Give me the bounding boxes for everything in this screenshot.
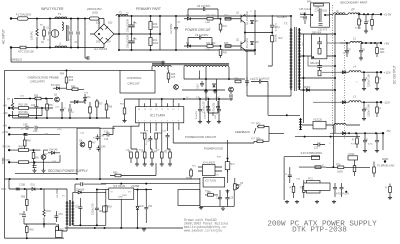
ground +5V filter — [359, 57, 363, 61]
aux box left of IC2 — [178, 190, 200, 206]
resistor R67 — [89, 142, 92, 148]
svg-text:C19: C19 — [229, 198, 234, 200]
svg-text:FR302: FR302 — [303, 86, 311, 89]
capacitor C3 — [76, 32, 80, 34]
wire 5VSB gnd bus — [65, 227, 183, 229]
capacitor C8 1uF/50V — [201, 7, 207, 11]
svg-text:222: 222 — [68, 40, 72, 42]
svg-text:C1: C1 — [46, 28, 50, 30]
secondary return bus — [303, 34, 305, 123]
resistor R80 — [26, 200, 29, 206]
svg-text:-5V: -5V — [386, 129, 391, 133]
resistor R44b — [167, 73, 170, 79]
ground -5V b — [375, 149, 379, 153]
capacitor C7 bulk — [174, 25, 178, 31]
wire second psu bottom — [5, 178, 200, 180]
choke L3 -12V — [349, 101, 361, 103]
svg-text:R1: R1 — [41, 42, 45, 44]
resistor R71 — [225, 162, 230, 170]
resistor R47 1K2 — [271, 36, 274, 42]
capacitor C49 — [97, 146, 101, 152]
ground shield end — [161, 61, 165, 65]
capacitor C18 — [166, 133, 170, 139]
svg-text:-12V: -12V — [3, 112, 8, 115]
rail right of power circuit — [254, 10, 256, 55]
dotted separation line 1 — [332, 5, 334, 130]
capacitor C45 — [26, 126, 28, 130]
svg-text:CIRCUIT: CIRCUIT — [128, 82, 140, 86]
resistor R44 — [207, 45, 213, 48]
diode D11 — [84, 97, 87, 100]
svg-text:+3.3V: +3.3V — [2, 131, 9, 134]
ground +12V filter a — [362, 87, 366, 91]
svg-text:9: 9 — [178, 109, 179, 111]
capacitor C1 — [48, 32, 52, 34]
rail after bridge — [118, 16, 120, 50]
wire above IC — [139, 99, 233, 103]
wire ovp row — [14, 98, 53, 100]
resistor R58 — [72, 88, 78, 91]
varistor Z1 — [36, 29, 38, 36]
svg-text:C22: C22 — [55, 107, 60, 109]
svg-text:C: C — [329, 143, 331, 145]
svg-text:5: 5 — [161, 121, 162, 123]
transformer T6 primary winding — [66, 201, 68, 225]
rectifier module D35 box — [313, 121, 326, 129]
zener Q9 zig — [43, 210, 45, 217]
svg-text:L3: L3 — [353, 95, 356, 99]
svg-text:C2: C2 — [67, 28, 71, 30]
capacitor C54 — [144, 205, 148, 211]
snubber cap CS2 — [317, 66, 322, 68]
ground +3.3V filter — [364, 30, 368, 34]
svg-text:R60: R60 — [113, 172, 118, 175]
bottom DC rail — [119, 49, 255, 51]
resistor R87 — [389, 187, 392, 193]
svg-text:SECONDARY PART: SECONDARY PART — [340, 1, 368, 5]
choke L4 +12V — [349, 71, 361, 73]
resistor R52 — [155, 133, 158, 139]
svg-text:R57: R57 — [99, 104, 104, 106]
choke T1 top winding — [55, 17, 67, 19]
svg-text:100R: 100R — [205, 22, 211, 24]
capacitor C38 2200uF/10V — [95, 206, 99, 212]
ground R87 — [388, 196, 392, 200]
wire bottom AC line — [11, 47, 104, 49]
capacitor C19 — [225, 195, 229, 201]
snubber res RS2 — [318, 70, 321, 76]
svg-text:330uF/200V: 330uF/200V — [127, 35, 130, 48]
svg-text:D83-004: D83-004 — [312, 32, 322, 35]
capacitor C103 — [359, 48, 363, 54]
svg-text:R81: R81 — [30, 230, 35, 232]
wire +12V row — [340, 71, 381, 73]
capacitor C32 — [217, 107, 221, 113]
svg-text:8: 8 — [178, 121, 179, 123]
svg-text:+3.3V: +3.3V — [384, 13, 392, 17]
svg-text:47u/25V: 47u/25V — [196, 110, 198, 119]
wire 3.3V return — [295, 136, 360, 138]
capacitor C31 — [207, 107, 211, 113]
svg-text:IC5 TL431: IC5 TL431 — [205, 180, 217, 183]
diode D6 — [187, 45, 190, 48]
svg-text:+5V: +5V — [3, 124, 8, 127]
svg-text:POWERGOOD: POWERGOOD — [204, 147, 223, 151]
IC3 gnd wire — [120, 199, 122, 228]
dotted separation line 2 — [344, 40, 346, 140]
resistor R81 — [26, 227, 29, 233]
resistor R90 — [19, 114, 29, 117]
svg-text:R49: R49 — [307, 1, 312, 4]
T2 winding end wires — [152, 67, 229, 90]
capacitor C22 — [68, 109, 72, 111]
capacitor C104 2200uF/16V — [362, 77, 366, 83]
svg-text:INPUT FILTER: INPUT FILTER — [41, 7, 64, 11]
svg-text:+12V: +12V — [384, 71, 391, 75]
resistor row below IC — [130, 152, 133, 158]
svg-text:C40: C40 — [363, 109, 368, 111]
svg-text:R58: R58 — [71, 85, 76, 88]
svg-text:R: R — [93, 138, 95, 140]
svg-text:C37: C37 — [347, 50, 352, 52]
svg-text:12: 12 — [161, 109, 163, 111]
svg-text:SECOND POWER SUPPLY: SECOND POWER SUPPLY — [48, 169, 89, 173]
resistor R89 — [19, 161, 29, 164]
svg-text:GND: GND — [382, 157, 388, 161]
svg-text:2200u/10V: 2200u/10V — [203, 101, 206, 113]
resistor R74 — [257, 140, 263, 143]
capacitor C5 330uF/200V — [128, 25, 134, 27]
terminal +12V — [380, 71, 382, 73]
diode D16 — [74, 101, 77, 104]
resistor R48 — [235, 80, 241, 83]
second psu connector box — [284, 157, 326, 200]
svg-text:L4: L4 — [353, 65, 356, 69]
transistor Q8 — [80, 142, 85, 147]
svg-text:CIRCUITRY: CIRCUITRY — [30, 79, 45, 83]
resistor R0 bottom line — [20, 46, 26, 49]
svg-text:T4: T4 — [352, 9, 355, 11]
choke L5 +3.3V — [348, 13, 360, 15]
svg-text:D21: D21 — [96, 22, 101, 25]
svg-text:16: 16 — [138, 109, 140, 111]
svg-text:D24: D24 — [107, 42, 112, 44]
IC1 TL494 — [136, 107, 184, 123]
-5V sub box — [382, 133, 384, 150]
svg-text:IC6: IC6 — [215, 175, 219, 177]
transformer T3 core — [295, 27, 297, 91]
transistor Q1 2SC4242 — [241, 15, 245, 25]
wire -12V row — [340, 101, 381, 103]
voltage selector switch — [90, 17, 100, 20]
svg-text:C56: C56 — [296, 179, 301, 181]
diode D38 — [342, 132, 345, 135]
capacitor C9 1uF/50V — [197, 36, 203, 40]
svg-text:1K: 1K — [21, 129, 24, 131]
svg-text:D33: D33 — [47, 211, 52, 213]
wire to IC3 — [97, 189, 109, 191]
svg-text:D13: D13 — [84, 93, 89, 95]
svg-text:NTC SCK105: NTC SCK105 — [18, 50, 34, 54]
resistor R56 — [46, 104, 49, 110]
svg-text:R59: R59 — [88, 107, 93, 109]
svg-text:C5: C5 — [134, 23, 138, 25]
svg-text:R: R — [380, 79, 382, 81]
resistor R64 — [23, 140, 26, 146]
svg-text:C41: C41 — [364, 140, 369, 142]
svg-text:7805: 7805 — [122, 195, 128, 197]
lamp/cap circle CX — [51, 30, 59, 38]
T3 secondary taps — [300, 34, 335, 90]
svg-text:R: R — [290, 188, 292, 190]
svg-text:SHIELD: SHIELD — [11, 58, 23, 62]
snubber res RS1 — [318, 49, 321, 55]
terminal AC L — [10, 17, 12, 19]
svg-text:104: 104 — [47, 40, 51, 42]
capacitor C53 — [78, 205, 82, 211]
svg-text:POWERGOOD CIRCUIT: POWERGOOD CIRCUIT — [185, 135, 217, 139]
svg-text:C51: C51 — [59, 214, 64, 216]
capacitor C16b — [216, 104, 220, 110]
wire +5V row — [340, 42, 381, 44]
resistor R83 — [105, 206, 108, 212]
wire bottom-left rails — [5, 179, 65, 238]
wire to feedback — [268, 82, 300, 116]
big box left edge — [4, 70, 6, 238]
ground -5V a — [363, 149, 367, 153]
wire aux row — [184, 78, 245, 80]
aux rail wires down — [199, 71, 216, 102]
resistor R103 3R3 — [376, 48, 379, 54]
svg-text:POW: POW — [349, 153, 355, 156]
svg-text:14: 14 — [150, 109, 152, 111]
svg-text:~: ~ — [86, 29, 88, 31]
choke L2 +5V — [350, 42, 362, 44]
ground C31 — [206, 120, 210, 124]
resistor R46 — [219, 50, 222, 56]
svg-text:C10B: C10B — [19, 184, 25, 187]
svg-text:-12V: -12V — [384, 101, 390, 105]
resistor Rb6 — [169, 152, 172, 158]
svg-text:R83: R83 — [108, 207, 113, 209]
resistor R102 — [371, 20, 374, 26]
terminal -12V sense — [8, 114, 10, 116]
svg-text:6: 6 — [167, 121, 168, 123]
svg-text:D31: D31 — [31, 184, 36, 187]
capacitor C10B — [16, 188, 20, 190]
svg-text:POWER CIRCUIT: POWER CIRCUIT — [185, 28, 211, 32]
svg-text:2200u/10V: 2200u/10V — [92, 203, 95, 215]
resistor R43 — [219, 24, 222, 30]
resistor Rb5 — [161, 152, 164, 158]
second psu top box lines — [77, 128, 115, 175]
resistor R82 — [56, 227, 59, 233]
svg-text:PS ON: PS ON — [3, 146, 11, 149]
svg-text:R 3R3: R 3R3 — [355, 28, 362, 30]
resistor R66 — [32, 153, 35, 159]
svg-text:470u: 470u — [368, 144, 374, 146]
svg-text:1: 1 — [138, 121, 139, 123]
svg-text:T6: T6 — [62, 196, 65, 198]
svg-text:R54: R54 — [60, 74, 65, 76]
capacitor C21 — [60, 107, 64, 113]
resistor R42 — [225, 17, 231, 20]
svg-text:R55: R55 — [34, 96, 39, 98]
svg-text:R45: R45 — [224, 42, 229, 45]
svg-text:R: R — [300, 188, 302, 190]
transistor Q7 — [41, 155, 46, 160]
resistor R60 — [115, 174, 121, 177]
svg-text:1K5: 1K5 — [171, 76, 176, 79]
svg-text:AC INPUT: AC INPUT — [2, 29, 6, 44]
extra labels zone2 — [20, 9, 374, 198]
svg-text:D32: D32 — [140, 206, 145, 208]
wire feedback out — [269, 133, 284, 135]
ground aux a — [204, 90, 208, 94]
capacitor C11 aux — [200, 81, 204, 87]
resistor R41 — [207, 17, 213, 20]
IC2 box — [203, 178, 225, 188]
capacitor C105 — [362, 107, 366, 113]
capacitor C47 — [24, 134, 28, 136]
svg-text:R48: R48 — [234, 78, 239, 81]
terminal +5V — [380, 42, 382, 44]
svg-text:R43: R43 — [223, 26, 228, 28]
svg-text:R5: R5 — [164, 152, 168, 154]
bottom right rect block — [304, 183, 330, 191]
wire magamp fb vertical — [332, 125, 334, 167]
svg-text:F1 T5A/250V: F1 T5A/250V — [16, 13, 32, 17]
capacitor C101 — [364, 20, 368, 26]
wire 5vsb rail — [15, 173, 77, 175]
bridge rectifier D21-D24 — [94, 24, 114, 44]
resistor R68 — [89, 107, 92, 113]
svg-text:LG-0508: LG-0508 — [56, 188, 59, 198]
capacitor C106 — [363, 138, 367, 144]
svg-text:TO BRAID-GND: TO BRAID-GND — [377, 165, 395, 168]
svg-text:D15: D15 — [58, 129, 63, 131]
svg-text:3300u: 3300u — [343, 53, 350, 55]
svg-text:11: 11 — [167, 109, 169, 111]
capacitor C17 — [148, 136, 152, 142]
svg-text:C43: C43 — [80, 133, 85, 135]
svg-text:D23: D23 — [96, 42, 101, 44]
below-IC pin wires — [131, 126, 179, 149]
svg-text:R70: R70 — [217, 157, 222, 159]
capacitor C16 — [107, 133, 109, 137]
resistor R51 — [143, 133, 146, 139]
svg-text:R42: R42 — [224, 15, 229, 18]
terminal +3.3V sense — [8, 133, 10, 135]
zener D32 — [136, 206, 139, 209]
diode D30b — [78, 191, 81, 194]
capacitor C57 — [340, 185, 344, 191]
svg-text:L1: L1 — [59, 44, 62, 46]
svg-text:C20: C20 — [31, 105, 36, 107]
diode D12 1N4148 — [51, 151, 54, 154]
capacitor C46 — [35, 126, 37, 130]
choke T5 on top rail — [116, 15, 128, 17]
resistor Rb4 — [151, 152, 154, 158]
thermistor TH1 — [11, 103, 13, 110]
resistor R77 — [315, 166, 321, 169]
resistor Rb3 — [143, 152, 146, 158]
terminal -12V — [380, 101, 382, 103]
resistor R63 — [19, 107, 29, 110]
svg-text:R41 2R2: R41 2R2 — [206, 15, 216, 18]
IC4 comparator box — [203, 165, 216, 176]
IC1 bottom pins — [139, 123, 179, 126]
diode D5 — [187, 17, 190, 20]
ground PS-ON — [32, 169, 36, 173]
resistor R55 — [35, 97, 41, 100]
capacitor C30 — [198, 107, 202, 113]
svg-text:4K7: 4K7 — [251, 138, 256, 140]
transformer T3 secondary winding — [298, 28, 300, 90]
svg-text:PRIMARY PART: PRIMARY PART — [136, 7, 161, 11]
svg-text:R76: R76 — [237, 185, 242, 187]
svg-text:C53: C53 — [75, 207, 80, 209]
ground R49 — [122, 119, 126, 123]
svg-text:T: T — [345, 100, 347, 102]
wire pw-ok — [353, 166, 371, 168]
svg-text:1K2/1W: 1K2/1W — [276, 33, 278, 42]
ground 5VSB bus — [142, 228, 146, 232]
capacitor C107 — [375, 138, 379, 144]
wire feedback — [173, 141, 254, 143]
svg-text:D6: D6 — [186, 42, 190, 45]
svg-text:R66: R66 — [35, 158, 40, 160]
snubber box R49/C24/D28 — [311, 3, 330, 27]
rectifier dual diode feed wires — [308, 56, 335, 66]
svg-text:100R: 100R — [337, 170, 343, 173]
svg-text:1N4936: 1N4936 — [76, 188, 85, 191]
svg-text:C46: C46 — [33, 130, 38, 133]
resistor R49 left of IC — [123, 108, 126, 114]
ground PS-ON b — [41, 169, 45, 173]
terminal GND — [384, 160, 386, 162]
resistor R75 — [208, 194, 214, 197]
grounds below resistor row — [135, 163, 139, 167]
svg-text:BYV26C: BYV26C — [51, 84, 60, 87]
svg-text:R: R — [352, 140, 354, 142]
svg-text:4: 4 — [155, 121, 156, 123]
resistor R101 — [358, 19, 361, 25]
svg-text:Q7: Q7 — [45, 154, 49, 156]
wire -5V row — [340, 132, 383, 134]
ground C32 — [217, 120, 221, 124]
svg-text:+5V: +5V — [384, 41, 389, 45]
svg-text:R79: R79 — [336, 163, 341, 166]
svg-text:15: 15 — [144, 109, 146, 111]
svg-text:5VSB: 5VSB — [2, 157, 5, 164]
svg-text:C8 1uF/50V: C8 1uF/50V — [197, 5, 211, 8]
svg-text:C22: C22 — [70, 112, 75, 114]
capacitor C18b — [218, 195, 222, 201]
diode D7 snubber — [251, 20, 254, 23]
resistor R76 — [234, 184, 237, 190]
terminal PW-OK — [8, 161, 10, 163]
transistor Q3 — [229, 87, 234, 92]
connector box bottom-left — [56, 231, 63, 238]
fuse F1 — [18, 17, 29, 20]
capacitor C102 — [345, 48, 349, 54]
svg-text:R46: R46 — [223, 53, 228, 55]
terminal -5V — [382, 132, 384, 134]
svg-text:C12 10uF/16V: C12 10uF/16V — [254, 78, 270, 81]
ground C30 — [198, 120, 202, 124]
svg-text:R67: R67 — [92, 143, 97, 145]
